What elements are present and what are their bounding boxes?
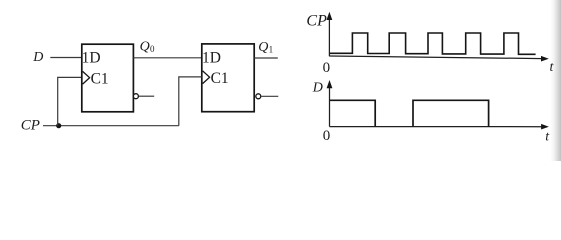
svg-text:D: D: [312, 80, 323, 95]
svg-text:C1: C1: [91, 71, 109, 88]
svg-text:CP: CP: [21, 118, 40, 134]
svg-text:1D: 1D: [82, 49, 101, 66]
svg-text:0: 0: [323, 128, 331, 144]
wire Q1 output: [254, 57, 278, 59]
svg-text:Q: Q: [140, 40, 150, 55]
svg-text:1D: 1D: [202, 49, 221, 66]
svg-text:CP: CP: [306, 12, 327, 29]
D time axis: [330, 126, 543, 128]
wire D input: [50, 57, 81, 59]
CP vertical axis: [328, 19, 330, 57]
junction dot on CP bus: [56, 123, 61, 128]
flip-flop FF1 body: [82, 44, 134, 112]
CP time axis arrowhead: [541, 56, 549, 62]
CP time axis: [329, 56, 542, 59]
svg-text:C1: C1: [211, 70, 229, 87]
svg-text:0: 0: [323, 60, 331, 76]
FF1 inversion bubble: [133, 94, 138, 99]
D waveform: [330, 100, 489, 126]
D vertical axis: [329, 87, 331, 127]
wire Q0 from FF1 to FF2: [133, 57, 202, 59]
wire FF1 inverted output stub: [139, 95, 154, 97]
wire FF2 inverted output stub: [261, 95, 278, 97]
wire CP bus: [43, 125, 179, 127]
svg-text:D: D: [32, 50, 43, 65]
wire CP riser to FF1: [58, 77, 81, 125]
D vertical axis arrowhead: [327, 80, 333, 88]
CP vertical axis arrowhead: [327, 12, 333, 20]
FF2 inversion bubble: [256, 94, 261, 99]
wire CP riser to FF2: [179, 77, 202, 126]
FF2 clock triangle: [203, 71, 210, 84]
FF1 clock triangle: [83, 71, 90, 84]
D time axis arrowhead: [541, 124, 549, 130]
svg-text:1: 1: [269, 44, 274, 54]
svg-text:Q: Q: [258, 40, 268, 55]
CP waveform: [330, 33, 536, 54]
flip-flop FF2 body: [202, 44, 254, 112]
svg-text:0: 0: [150, 44, 155, 54]
